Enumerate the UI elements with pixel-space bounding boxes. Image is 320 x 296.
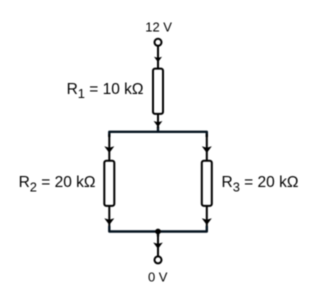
svg-text:R2 = 20 kΩ: R2 = 20 kΩ: [19, 174, 96, 194]
svg-text:R3 = 20 kΩ: R3 = 20 kΩ: [222, 174, 299, 194]
svg-text:12 V: 12 V: [145, 20, 172, 35]
svg-text:R1 = 10 kΩ: R1 = 10 kΩ: [67, 81, 144, 101]
svg-text:0 V: 0 V: [148, 269, 168, 284]
